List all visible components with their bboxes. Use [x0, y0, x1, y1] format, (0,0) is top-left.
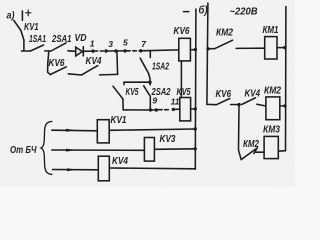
- svg-text:~220В: ~220В: [230, 7, 258, 18]
- brace: [41, 121, 52, 174]
- svg-text:От БЧ: От БЧ: [10, 145, 37, 156]
- svg-text:KV6: KV6: [174, 26, 190, 37]
- node rail rung2: [283, 104, 286, 107]
- wire line1 to rail: [109, 129, 195, 130]
- wire below KV5 to rung: [122, 99, 124, 110]
- wire bridge right tick: [149, 82, 151, 85]
- svg-text:KV6: KV6: [216, 89, 232, 100]
- contact KM2 rung3 serif: [254, 148, 258, 154]
- coil KV6: [179, 38, 191, 61]
- node rung1 left: [206, 47, 209, 50]
- plus terminal: [26, 12, 31, 14]
- svg-text:KV5: KV5: [126, 87, 139, 98]
- wire below 1SA2 to bridge: [149, 74, 151, 83]
- coil KM1: [265, 37, 277, 59]
- svg-text:KV6: KV6: [49, 58, 65, 69]
- minus sign: [184, 11, 189, 13]
- wire to diode: [68, 50, 76, 53]
- wire lower rung: [123, 109, 157, 111]
- wire node3-node5: [106, 50, 125, 52]
- svg-text:KV4: KV4: [112, 156, 128, 167]
- node rail rung1: [283, 46, 286, 49]
- contact KV6 blade rung2: [216, 99, 229, 105]
- svg-text:KV1: KV1: [24, 22, 39, 33]
- svg-text:KV5: KV5: [177, 87, 191, 98]
- svg-text:2SA1: 2SA1: [51, 34, 72, 45]
- wire coil KV6 bottom to coil KV5 top: [180, 61, 182, 98]
- coil KV5: [180, 98, 191, 121]
- wire line 1 from BCh: [52, 129, 98, 132]
- wire line 2 from BCh: [52, 149, 145, 151]
- wire bridge horizontal: [124, 81, 151, 83]
- node 7: [139, 49, 142, 52]
- contact KV6 blade (branch): [50, 67, 66, 75]
- contact 2SA1 blade: [51, 43, 66, 51]
- svg-text:9: 9: [152, 96, 157, 106]
- wire rung2 to coil KM2: [257, 104, 266, 106]
- contact KV1 blade: [14, 20, 21, 30]
- diode VD: [76, 47, 83, 56]
- svg-text:5: 5: [123, 37, 128, 47]
- wire below KV1: [21, 31, 24, 51]
- wire line2 to rail: [154, 148, 195, 151]
- contact KV4 blade rung2: [242, 98, 256, 105]
- wire main line start: [22, 50, 31, 52]
- wire coil KM1 to rail: [277, 47, 286, 49]
- coil KV3: [144, 138, 154, 162]
- wire rung2 start: [207, 103, 217, 105]
- wire below 2SA2 to rung: [149, 96, 151, 110]
- node rail KV5: [194, 107, 197, 110]
- wire 1SA2 drop from main line: [149, 51, 151, 58]
- node bridge junction: [148, 81, 151, 84]
- svg-text:КМ2: КМ2: [243, 139, 259, 150]
- minus rail: [194, 9, 197, 169]
- contact 1SA1 blade: [30, 45, 43, 51]
- node 11: [172, 108, 175, 111]
- wire coil KV6 to rail: [190, 49, 195, 51]
- wire KV4 branch vertical: [116, 51, 119, 74]
- svg-text:VD: VD: [75, 33, 87, 44]
- svg-text:3: 3: [108, 39, 113, 49]
- arrow line3: [67, 168, 77, 171]
- node 1: [91, 49, 94, 52]
- wire dashed node9-node11: [159, 109, 169, 111]
- wire coil KM2 to rail: [280, 105, 286, 107]
- node junction 2SA2: [149, 108, 152, 111]
- wire rung3 to coil KM3: [256, 151, 264, 153]
- node rail line2: [194, 147, 197, 150]
- wire node7 to coil KV6: [141, 49, 179, 52]
- contact 1SA2 blade: [140, 58, 148, 73]
- wire after 1SA1: [45, 50, 51, 52]
- coil KV4: [98, 156, 109, 181]
- wire coil KV5 to rail: [191, 108, 196, 110]
- wire bridge left tick: [123, 82, 125, 84]
- contact KM2 blade rung3: [241, 149, 256, 160]
- wire drop rung2 to rung3: [239, 105, 242, 160]
- svg-text:КМ2: КМ2: [264, 86, 281, 97]
- svg-text:1: 1: [90, 38, 95, 48]
- wire KV4 to vertical: [100, 73, 118, 76]
- wire coil KM3 to rail: [278, 150, 285, 153]
- node rung2 junction: [237, 103, 240, 106]
- wire top vertical from +: [21, 11, 23, 20]
- svg-text:б): б): [199, 4, 208, 16]
- wire rung1 start: [208, 48, 215, 50]
- wire between KV6 and KV4: [68, 74, 81, 75]
- wire diode to node 1: [83, 50, 93, 52]
- node 5: [123, 49, 126, 52]
- svg-text:1SA2: 1SA2: [152, 62, 169, 73]
- node rail main: [194, 48, 197, 51]
- svg-text:KV3: KV3: [160, 134, 176, 145]
- wire node11 to coil KV5: [173, 108, 180, 110]
- rail right of b): [285, 7, 287, 151]
- contact KM2 blade rung1: [215, 40, 233, 48]
- coil KM2: [266, 97, 280, 120]
- node junction KV4 branch: [114, 49, 117, 52]
- node rail line1: [194, 127, 197, 130]
- arrow line2: [66, 149, 76, 152]
- node 3: [104, 49, 107, 52]
- wire rung1 to coil KM1: [236, 47, 265, 49]
- arrow line1: [66, 129, 76, 132]
- wire line3 to rail: [109, 167, 195, 170]
- wire line 3 from BCh: [53, 169, 99, 171]
- svg-text:KV1: KV1: [111, 115, 127, 126]
- wire rung2 mid: [231, 104, 239, 106]
- svg-text:КМ1: КМ1: [263, 25, 279, 36]
- rail left of b): [207, 3, 208, 104]
- contact 2SA2 blade: [144, 86, 151, 97]
- wire dashed node1-node3: [95, 50, 105, 52]
- contact KV5 blade: [113, 86, 123, 99]
- svg-text:КМ2: КМ2: [216, 28, 233, 39]
- svg-text:KV4: KV4: [245, 89, 261, 100]
- svg-text:КМ3: КМ3: [263, 125, 280, 136]
- svg-text:1SA1: 1SA1: [29, 34, 46, 45]
- contact KV4 blade (branch): [82, 66, 98, 75]
- node 9: [155, 108, 158, 111]
- coil KM3: [264, 136, 278, 158]
- svg-text:KV4: KV4: [86, 56, 102, 67]
- wire dashed node5-node7: [127, 50, 140, 52]
- wire branch drop below junction: [48, 51, 51, 75]
- coil KV1: [97, 120, 109, 143]
